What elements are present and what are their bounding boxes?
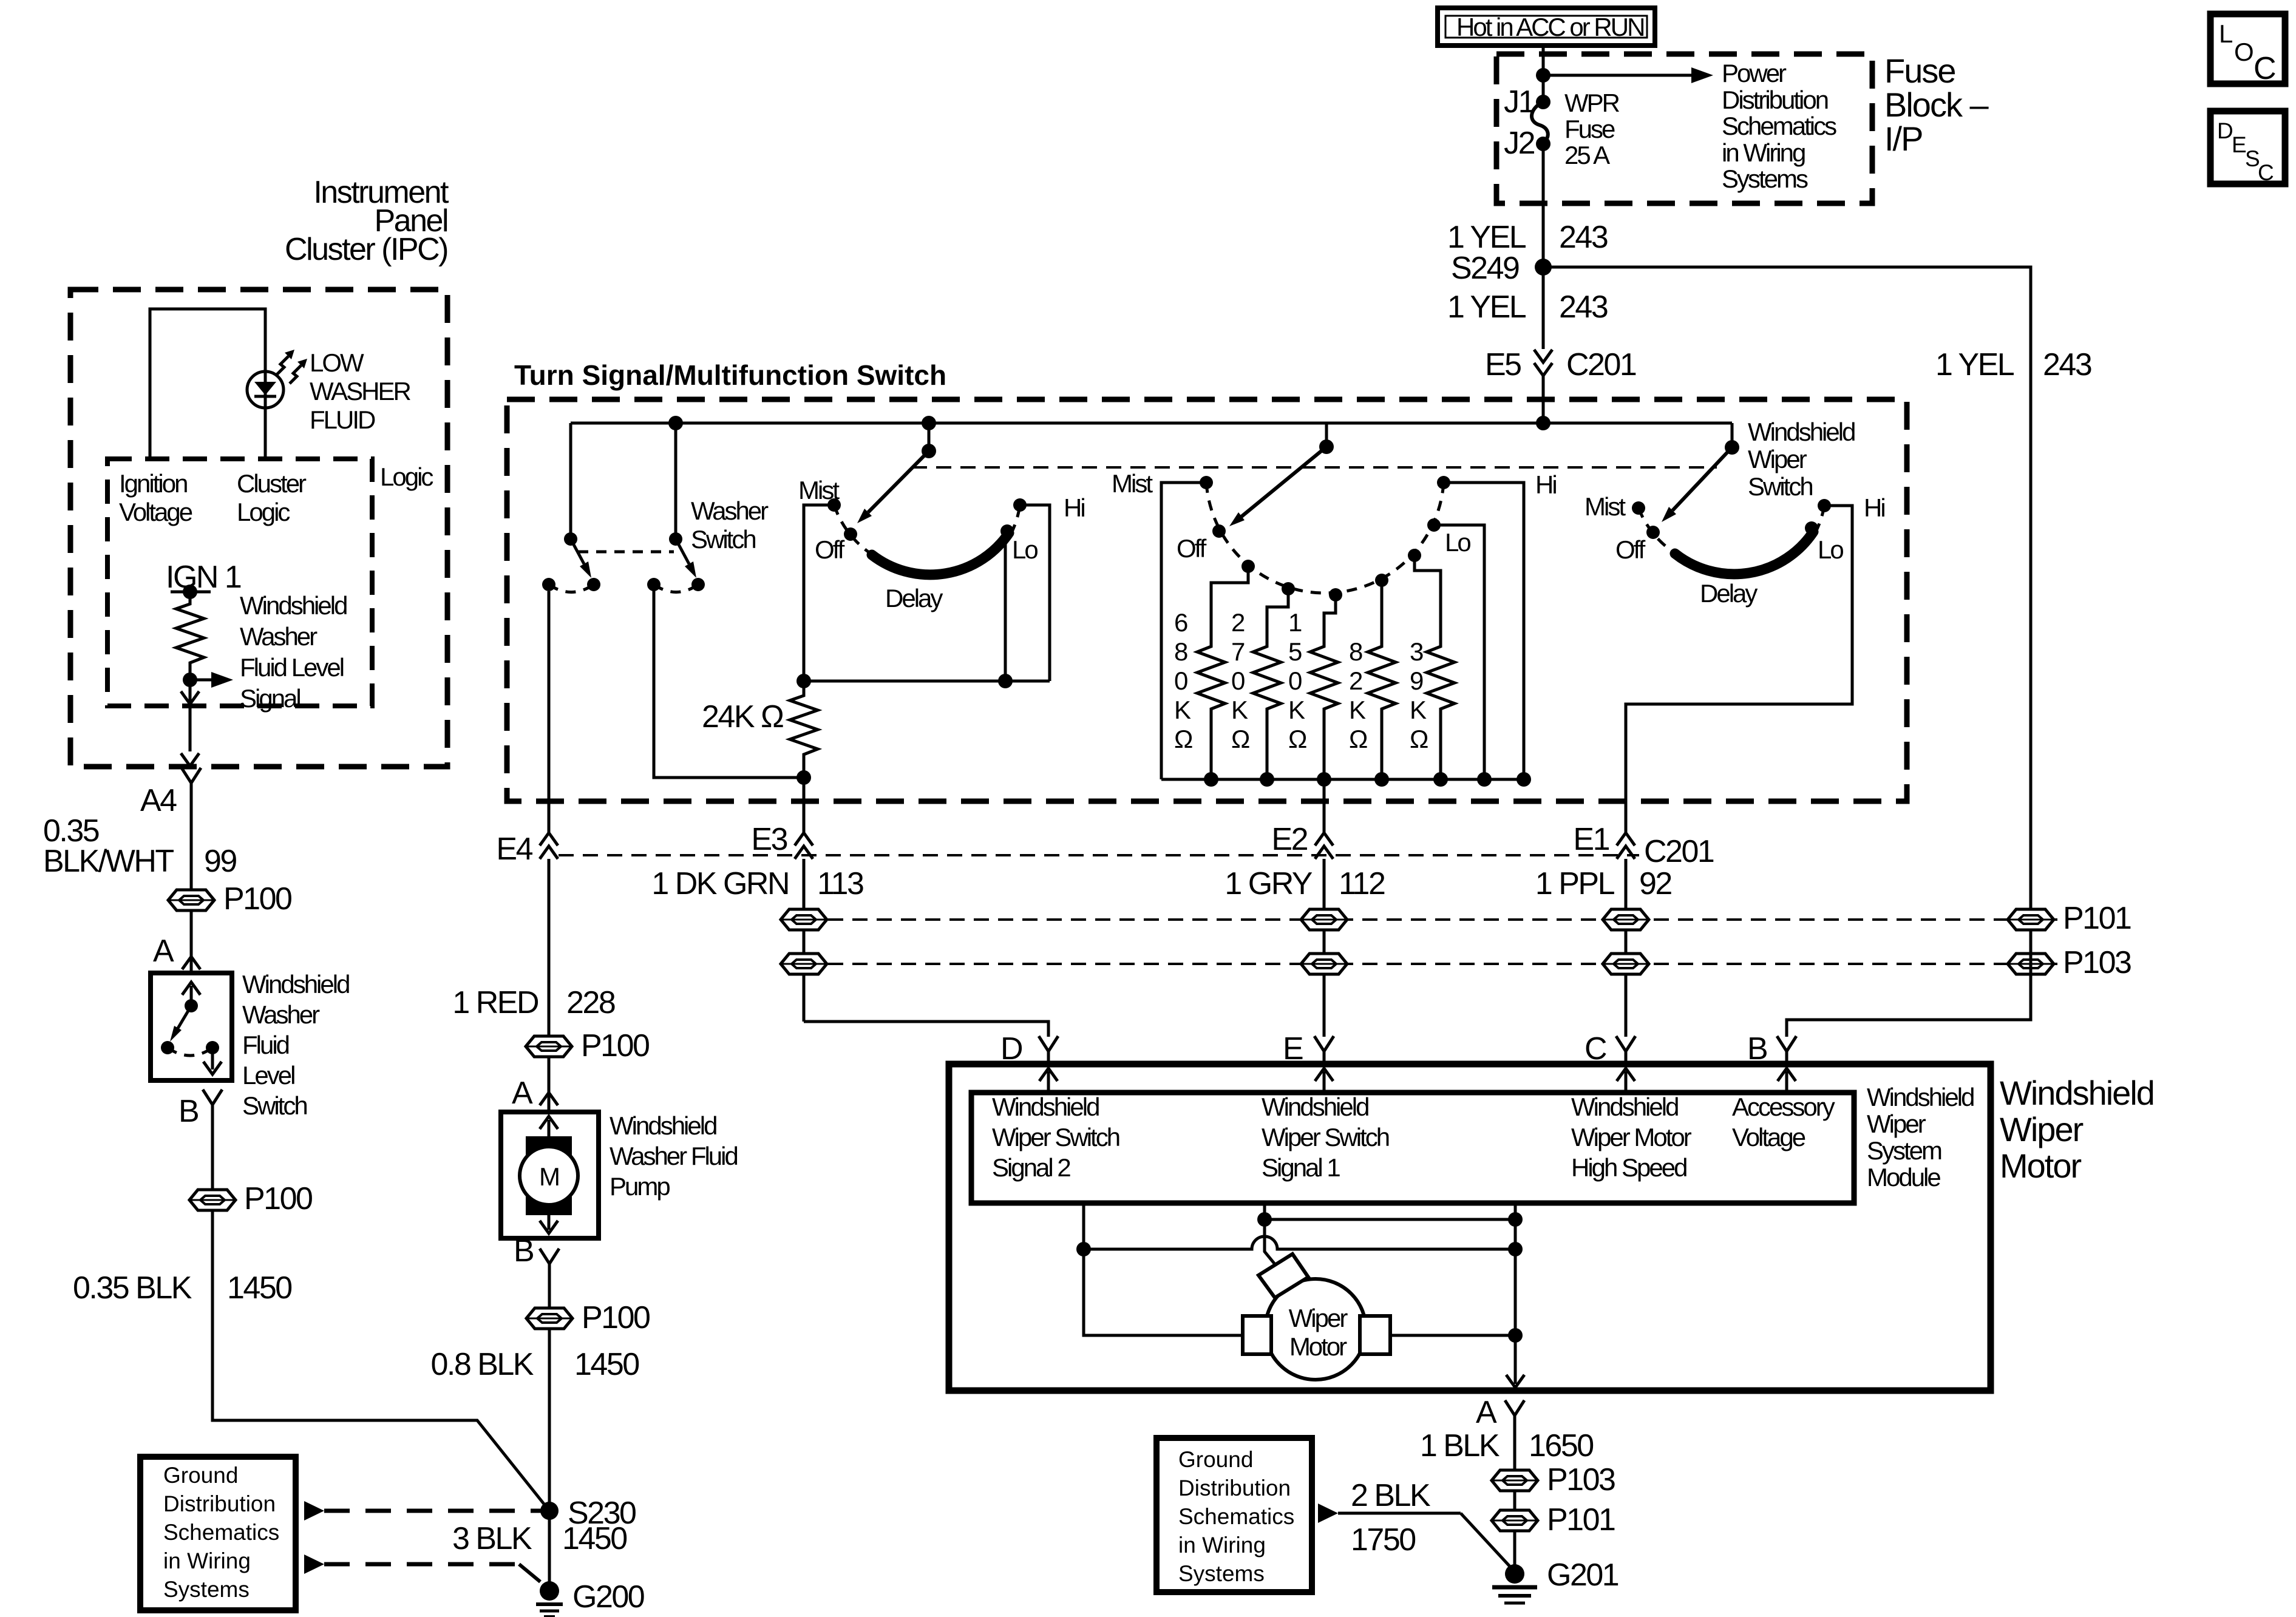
svg-text:A4: A4	[140, 783, 177, 818]
svg-text:Mist: Mist	[1584, 492, 1626, 521]
svg-text:8: 8	[1349, 637, 1362, 666]
fuse block I/P dashed box	[1496, 54, 1872, 203]
wire between P103 P101	[1513, 1491, 1517, 1510]
svg-text:Washer Fluid: Washer Fluid	[610, 1142, 737, 1170]
contact tap 39K	[1408, 549, 1421, 562]
node rail B Lo	[1477, 772, 1492, 787]
label windshield wiper switch signal 1	[1262, 1093, 1389, 1182]
svg-text:Accessory: Accessory	[1732, 1093, 1835, 1121]
node rail A Lo	[998, 674, 1013, 688]
svg-text:P101: P101	[1547, 1502, 1615, 1537]
wire 3 BLK 1450	[548, 1511, 551, 1590]
svg-text:E: E	[2232, 132, 2247, 157]
svg-text:Signal 1: Signal 1	[1262, 1153, 1340, 1182]
svg-text:Cluster: Cluster	[237, 469, 307, 498]
svg-text:1450: 1450	[227, 1270, 291, 1306]
wire module cross rail low	[1084, 1236, 1515, 1249]
arrow into module E	[1315, 1068, 1333, 1091]
delay arc switch C	[1675, 532, 1813, 574]
svg-text:Windshield: Windshield	[1748, 418, 1855, 446]
svg-text:L: L	[2219, 19, 2232, 48]
wire LED to logic box	[264, 407, 267, 459]
windshield washer fluid level switch	[151, 973, 232, 1080]
node rail B 82K	[1374, 772, 1389, 787]
wiper switch B arm	[1229, 423, 1334, 526]
pin E module	[1283, 1031, 1334, 1066]
svg-text:Windshield: Windshield	[242, 970, 349, 998]
wire bottom rail switch B	[1161, 778, 1524, 781]
svg-text:1450: 1450	[574, 1347, 639, 1382]
svg-text:J1: J1	[1504, 84, 1535, 120]
label Instrument Panel Cluster (IPC)	[285, 175, 449, 267]
svg-text:Hi: Hi	[1064, 493, 1084, 522]
label 1 BLK 1650	[1420, 1428, 1593, 1463]
svg-text:1750: 1750	[1351, 1522, 1415, 1558]
svg-text:Wiper Switch: Wiper Switch	[992, 1123, 1119, 1151]
Hot in ACC or RUN power tag	[1438, 8, 1655, 46]
svg-text:Hi: Hi	[1535, 470, 1556, 499]
svg-text:Windshield: Windshield	[1867, 1083, 1974, 1111]
svg-text:Ignition: Ignition	[119, 469, 187, 498]
svg-text:in Wiring: in Wiring	[163, 1548, 251, 1573]
node rail B Hi end	[1517, 772, 1531, 787]
connector P101 on ground	[1492, 1502, 1615, 1537]
wire E3 column through connectors	[803, 859, 806, 1022]
svg-text:2: 2	[1349, 666, 1362, 695]
label windshield wiper switch signal 2	[992, 1093, 1119, 1182]
svg-text:Distribution: Distribution	[1178, 1476, 1291, 1500]
wire 2 BLK 1750 ref	[1318, 1503, 1513, 1570]
pin D module	[1000, 1031, 1058, 1066]
resistor 82K	[1349, 580, 1396, 779]
svg-text:P101: P101	[2063, 901, 2131, 936]
ground G201	[1492, 1558, 1618, 1603]
label 0.35 BLK/WHT 99	[43, 813, 236, 879]
contact tap 270K	[1282, 582, 1295, 595]
wire Lo to bottom rail A	[1004, 534, 1007, 681]
wire Hi to bottom rail A	[1020, 505, 1050, 681]
wire module signal1 stub	[1263, 1203, 1266, 1219]
washer switch 1 contacts	[542, 578, 600, 592]
node rail to washer switch 2	[668, 416, 683, 430]
delay arc switch A	[872, 533, 1009, 575]
wire E4 below connector	[548, 859, 551, 1036]
svg-text:Schematics: Schematics	[163, 1520, 279, 1545]
svg-text:Systems: Systems	[1178, 1561, 1265, 1586]
svg-text:E4: E4	[496, 832, 532, 867]
node feed junction	[1536, 68, 1550, 83]
svg-text:Windshield: Windshield	[1571, 1093, 1678, 1121]
svg-text:Off: Off	[1615, 535, 1646, 564]
svg-text:I/P: I/P	[1884, 120, 1922, 158]
wire Mist B to left rail	[1161, 483, 1206, 779]
wire signal arrow right	[190, 672, 233, 688]
svg-text:3 BLK: 3 BLK	[452, 1521, 532, 1556]
wiper switch A arm	[857, 423, 936, 523]
wire 0.35 BLK 1450 upper	[211, 1105, 214, 1190]
contact Mist switch A	[827, 498, 841, 512]
svg-text:Distribution: Distribution	[163, 1491, 276, 1516]
svg-text:Ground: Ground	[163, 1463, 238, 1488]
svg-text:25 A: 25 A	[1564, 141, 1610, 169]
svg-text:Ω: Ω	[1174, 725, 1192, 753]
svg-text:System: System	[1867, 1136, 1941, 1165]
connector row C201 dashed line	[559, 854, 1639, 856]
wire module signal2 stub	[1084, 1203, 1243, 1335]
svg-text:Windshield: Windshield	[240, 591, 347, 620]
dashed rotary arc switch B	[1206, 483, 1444, 593]
svg-text:Fluid: Fluid	[242, 1031, 289, 1059]
wire arrow to power distribution	[1543, 67, 1713, 83]
svg-text:2 BLK: 2 BLK	[1351, 1478, 1431, 1513]
IPC dashed box	[70, 290, 447, 767]
svg-text:K: K	[1410, 696, 1427, 724]
IPC logic dashed box	[107, 459, 372, 706]
dashed ref arrow to S230	[304, 1501, 549, 1520]
svg-text:Pump: Pump	[610, 1172, 670, 1201]
wire module cross rail high	[1265, 1218, 1515, 1221]
LED low washer fluid indicator	[247, 350, 307, 408]
svg-text:LOW: LOW	[310, 348, 364, 377]
svg-text:Hi: Hi	[1864, 493, 1884, 522]
label windshield wiper system module	[1867, 1083, 1974, 1192]
turn signal multifunction switch dashed box	[507, 399, 1907, 801]
svg-text:FLUID: FLUID	[310, 405, 375, 434]
commutator brush block	[1258, 1254, 1308, 1298]
washer switch gang dashed link	[578, 551, 674, 554]
svg-text:3: 3	[1410, 637, 1423, 666]
label LOW WASHER FLUID	[310, 348, 410, 434]
dashed ref arrow to G200	[304, 1554, 540, 1582]
wire fuse output 1 YEL 243	[1542, 144, 1545, 349]
svg-text:Logic: Logic	[237, 498, 290, 526]
svg-text:Hot in ACC or RUN: Hot in ACC or RUN	[1456, 13, 1643, 41]
svg-text:0.8 BLK: 0.8 BLK	[430, 1347, 534, 1382]
svg-text:D: D	[2217, 118, 2233, 143]
svg-text:Wiper: Wiper	[2000, 1110, 2084, 1148]
svg-text:0: 0	[1174, 666, 1187, 695]
wire washer switch 2 to 24K resistor	[654, 585, 804, 778]
connector E1 C201	[1573, 822, 1714, 869]
svg-text:Ω: Ω	[1231, 725, 1249, 753]
pin B level switch	[178, 1090, 222, 1129]
svg-text:P100: P100	[581, 1028, 649, 1063]
wire brush hop to commutator	[1265, 1219, 1279, 1269]
connector E3	[751, 822, 813, 859]
svg-text:P100: P100	[582, 1300, 650, 1335]
svg-text:Mist: Mist	[1112, 469, 1153, 498]
svg-text:24K Ω: 24K Ω	[702, 699, 783, 734]
label 1 YEL 243 right branch	[1935, 347, 2091, 382]
svg-text:228: 228	[566, 985, 615, 1020]
svg-text:2: 2	[1231, 608, 1245, 637]
svg-text:Windshield: Windshield	[992, 1093, 1099, 1121]
wire motor output to ground leg	[1390, 1334, 1515, 1337]
svg-text:7: 7	[1231, 637, 1245, 666]
label 1 PPL 92	[1535, 866, 1672, 901]
svg-text:1: 1	[1288, 608, 1302, 637]
label 0.8 BLK 1450	[430, 1347, 639, 1382]
wire E1 column through connectors	[1625, 859, 1628, 1037]
pin J2	[1504, 126, 1550, 161]
node rail B 39K	[1433, 772, 1448, 787]
contact tap 680K	[1241, 560, 1255, 573]
svg-text:E2: E2	[1271, 822, 1307, 857]
label Ignition Voltage	[119, 469, 192, 526]
svg-text:1650: 1650	[1529, 1428, 1593, 1463]
contact Off switch A	[844, 527, 857, 541]
wire Hi B to rail	[1444, 483, 1524, 779]
svg-text:1 YEL: 1 YEL	[1935, 347, 2014, 382]
node signal tap	[183, 673, 197, 687]
svg-text:Block –: Block –	[1884, 86, 1989, 124]
svg-text:P103: P103	[2063, 945, 2131, 980]
label 1 YEL 243 lower	[1447, 290, 1608, 325]
splice S249	[1451, 251, 1552, 286]
wire Hi C to E1	[1626, 506, 1852, 833]
node IGN 1 rail	[171, 585, 211, 599]
label 2 BLK 1750	[1351, 1478, 1431, 1558]
label 1 RED 228	[452, 985, 614, 1020]
svg-text:Lo: Lo	[1818, 535, 1843, 564]
svg-text:Ω: Ω	[1410, 725, 1428, 753]
svg-text:1 RED: 1 RED	[452, 985, 538, 1020]
connector P100 pass-through 1	[168, 881, 291, 917]
wire bottom rail switch A	[804, 680, 1050, 683]
fuse WPR 25A element	[1532, 102, 1548, 144]
svg-text:Voltage: Voltage	[119, 498, 192, 526]
windshield washer fluid pump	[501, 1112, 599, 1238]
svg-text:Turn Signal/Multifunction Swit: Turn Signal/Multifunction Switch	[514, 359, 946, 391]
windshield wiper motor outer box	[949, 1064, 1991, 1391]
svg-text:in Wiring: in Wiring	[1178, 1533, 1266, 1558]
wire pump to P100	[548, 1264, 551, 1308]
wire 0.35 BLK 1450 to S230	[212, 1210, 549, 1511]
wire P100 to pump	[548, 1057, 551, 1112]
svg-text:Delay: Delay	[1700, 579, 1758, 608]
ground distribution schematics box right	[1156, 1438, 1312, 1592]
svg-text:8: 8	[1174, 637, 1187, 666]
dashed rotary arc switch C	[1639, 506, 1824, 555]
svg-text:5: 5	[1288, 637, 1302, 666]
svg-text:Switch: Switch	[1748, 472, 1812, 501]
svg-text:Windshield: Windshield	[2000, 1074, 2154, 1112]
label windshield wiper motor	[2000, 1074, 2154, 1185]
svg-text:Motor: Motor	[1289, 1332, 1347, 1361]
svg-text:Ω: Ω	[1288, 725, 1306, 753]
wire S249 branch right	[1543, 267, 2031, 909]
dashed mist rail	[912, 466, 1717, 469]
connector P103 on E3	[781, 954, 827, 974]
svg-text:243: 243	[1559, 290, 1608, 325]
svg-text:G200: G200	[572, 1579, 644, 1615]
svg-text:BLK/WHT: BLK/WHT	[43, 844, 174, 879]
washer switch 1 arm	[564, 423, 591, 578]
svg-text:WASHER: WASHER	[310, 377, 410, 405]
arrow into module D	[1039, 1068, 1058, 1091]
node rail to E5 feed	[1536, 416, 1550, 430]
wire supply rail inside switch	[571, 422, 1732, 425]
DESC legend box	[2210, 111, 2285, 185]
connector P100 on pump feed	[526, 1028, 649, 1063]
svg-text:Wiper Switch: Wiper Switch	[1262, 1123, 1389, 1151]
svg-text:Wiper Motor: Wiper Motor	[1571, 1123, 1692, 1151]
label Windshield Washer Fluid Level Signal	[240, 591, 347, 713]
wiper motor right terminal	[1360, 1316, 1390, 1354]
svg-text:M: M	[539, 1162, 559, 1191]
node signal2 cross	[1076, 1242, 1091, 1256]
splice S230	[540, 1496, 636, 1531]
wire E4 column washer feed	[548, 591, 551, 833]
label 1 GRY 112	[1224, 866, 1385, 901]
arrow into module C	[1617, 1068, 1635, 1091]
svg-text:in Wiring: in Wiring	[1722, 138, 1805, 167]
connector E2	[1271, 822, 1333, 859]
connector E4	[496, 832, 558, 867]
svg-text:High Speed: High Speed	[1571, 1153, 1686, 1182]
svg-text:Off: Off	[815, 535, 845, 564]
svg-text:WPR: WPR	[1564, 89, 1620, 117]
svg-text:Power: Power	[1722, 59, 1787, 87]
pin B module	[1747, 1031, 1796, 1066]
svg-text:Delay: Delay	[885, 584, 943, 612]
contact tap 150K	[1329, 588, 1342, 602]
contact Hi switch A	[1013, 498, 1027, 512]
resistor 680K	[1174, 566, 1248, 779]
wire IPC internal loop	[150, 309, 265, 459]
node rail A left	[796, 674, 811, 688]
connector P103 on ground	[1492, 1462, 1615, 1497]
wiper switch C arm	[1662, 423, 1739, 522]
node signal1 tap	[1257, 1212, 1272, 1227]
wire Mist contact to left rail	[804, 505, 834, 681]
connector P103 on E1	[1603, 954, 1649, 974]
wire E5 into turn switch box	[1542, 376, 1545, 423]
svg-text:Lo: Lo	[1445, 528, 1470, 557]
wire 1 BLK 1650	[1513, 1415, 1517, 1470]
resistor fluid level pull-up	[176, 592, 204, 680]
wire P101 to G201	[1513, 1531, 1517, 1572]
washer switch 2 contacts	[647, 578, 705, 592]
svg-text:1 PPL: 1 PPL	[1535, 866, 1615, 901]
node rail B 270K	[1260, 772, 1274, 787]
svg-text:B: B	[178, 1094, 198, 1129]
label Fuse Block I/P	[1884, 52, 1989, 158]
contact Lo switch B	[1427, 518, 1441, 532]
wire E2 column through connectors	[1323, 859, 1326, 1037]
wiper system module inner box	[971, 1093, 1854, 1203]
wire 0.8 BLK 1450	[548, 1329, 551, 1511]
contact tap 82K	[1375, 574, 1388, 587]
connector P103 on accessory feed	[2008, 954, 2054, 974]
svg-text:A: A	[153, 934, 174, 969]
svg-text:Level: Level	[242, 1061, 294, 1090]
pin C module	[1584, 1031, 1635, 1066]
label wiper motor	[1289, 1304, 1348, 1361]
svg-text:0.35 BLK: 0.35 BLK	[73, 1270, 192, 1306]
svg-text:E5: E5	[1485, 347, 1521, 382]
label Windshield Wiper Switch	[1748, 418, 1855, 501]
svg-text:1 BLK: 1 BLK	[1420, 1428, 1500, 1463]
connector P101 on E2	[1301, 909, 1347, 930]
svg-text:243: 243	[2043, 347, 2091, 382]
svg-text:Ground: Ground	[1178, 1447, 1253, 1472]
svg-text:243: 243	[1559, 220, 1608, 255]
svg-text:C201: C201	[1644, 834, 1714, 869]
svg-text:Fuse: Fuse	[1564, 115, 1615, 143]
node ground leg high	[1508, 1212, 1523, 1227]
contact Off switch C	[1646, 526, 1660, 539]
svg-text:Windshield: Windshield	[1262, 1093, 1368, 1121]
svg-text:Fuse: Fuse	[1884, 52, 1955, 90]
label 0.35 BLK 1450	[73, 1270, 291, 1306]
connector P100 on pump ground	[526, 1300, 650, 1335]
wire E3 drop	[803, 778, 806, 833]
contact Mist switch C	[1632, 501, 1645, 515]
svg-text:B: B	[514, 1233, 533, 1269]
svg-text:9: 9	[1410, 666, 1423, 695]
label Windshield Washer Fluid Pump	[610, 1111, 737, 1201]
svg-text:G201: G201	[1547, 1558, 1618, 1593]
connector P101 on accessory feed	[2008, 909, 2054, 930]
wire from hot tag to fuse	[1542, 46, 1545, 102]
svg-text:0: 0	[1288, 666, 1302, 695]
svg-text:J2: J2	[1504, 126, 1535, 161]
pin B pump	[514, 1233, 559, 1269]
svg-text:Signal 2: Signal 2	[992, 1153, 1070, 1182]
wire E2 drop	[1323, 779, 1326, 833]
resistor 24K	[790, 681, 818, 778]
svg-text:Schematics: Schematics	[1178, 1504, 1294, 1529]
node 24K output	[796, 770, 811, 785]
wire E3 jog to module D	[804, 1022, 1048, 1037]
wiper motor circle	[1265, 1279, 1366, 1380]
connector P103 dashed row	[804, 963, 2061, 965]
label power distribution	[1722, 59, 1836, 193]
svg-text:A: A	[1476, 1395, 1497, 1430]
svg-text:S249: S249	[1451, 251, 1519, 286]
label Washer Switch	[691, 497, 769, 554]
label Cluster Logic	[237, 469, 307, 526]
svg-text:C: C	[2254, 51, 2275, 86]
contact Mist switch B	[1200, 476, 1213, 489]
svg-text:P100: P100	[223, 881, 291, 917]
svg-text:Voltage: Voltage	[1732, 1123, 1805, 1151]
label accessory voltage	[1732, 1093, 1835, 1151]
contact Lo switch A	[1000, 524, 1014, 538]
wire module ground leg	[1514, 1203, 1517, 1360]
label windshield wiper motor high speed	[1571, 1093, 1692, 1182]
svg-text:K: K	[1231, 696, 1248, 724]
svg-text:113: 113	[817, 866, 863, 901]
resistor 270K	[1231, 589, 1288, 779]
node rail B 680K	[1204, 772, 1218, 787]
connector P103 on E2	[1301, 954, 1347, 974]
resistor 39K	[1410, 555, 1455, 779]
svg-text:Windshield: Windshield	[610, 1111, 716, 1140]
contact Hi switch C	[1818, 499, 1831, 512]
svg-text:Washer: Washer	[242, 1000, 320, 1029]
arrow into module B	[1778, 1068, 1796, 1091]
svg-text:Wiper: Wiper	[1748, 445, 1807, 473]
svg-text:E3: E3	[751, 822, 787, 857]
svg-text:1 YEL: 1 YEL	[1447, 220, 1526, 255]
svg-text:92: 92	[1639, 866, 1671, 901]
label WPR Fuse 25 A	[1564, 89, 1620, 169]
node ground leg low	[1508, 1242, 1523, 1256]
svg-text:1 GRY: 1 GRY	[1224, 866, 1312, 901]
resistor 150K	[1288, 595, 1338, 779]
